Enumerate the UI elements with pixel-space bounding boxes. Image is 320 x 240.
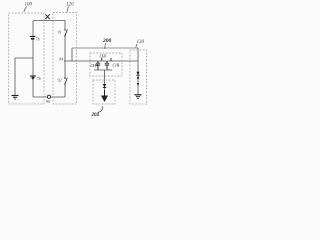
ground G1 [12,95,19,97]
dashed enclosure box 100 [9,13,45,104]
wire bottom horizontal [33,96,65,98]
svg-text:204: 204 [91,113,100,118]
wire ground branch horizontal [15,57,33,59]
break mark X on top wire [45,14,49,19]
wire exit from capacitor box [104,70,106,80]
battery B1 [30,35,36,37]
svg-text:94: 94 [59,57,63,62]
wire switch branch vertical upper [64,21,66,62]
dashed capacitor module box [90,53,122,76]
wire top rail to box 130 [72,47,138,49]
svg-text:7b: 7b [36,36,40,41]
leader for label 204 [98,106,103,113]
arrow mark on wire [137,83,139,86]
switch S1 [64,30,67,36]
wire riser to top rail [71,48,73,61]
svg-text:120: 120 [66,2,74,7]
wire top horizontal [33,20,65,22]
terminal node 96 [47,95,50,98]
zener diode D3 [136,72,139,75]
svg-text:92: 92 [58,78,62,83]
leader for label 120 [67,7,69,12]
arrow down in lower box [104,90,106,96]
tick marks on bus [102,58,111,61]
wire drop into box 130 [137,48,139,61]
wire ground branch vertical [14,58,16,95]
svg-text:91: 91 [58,30,62,35]
svg-text:100: 100 [25,2,33,7]
wire vertical in box 130 [137,61,139,95]
diode D1 on battery branch [30,75,36,77]
wire switch branch vertical lower [64,61,66,97]
svg-text:200: 200 [102,38,112,44]
switch S2 [64,78,67,84]
dashed enclosure box 130 [130,50,147,104]
svg-text:C1B: C1B [113,64,120,68]
capacitor C2 [105,61,109,70]
svg-text:130: 130 [137,40,145,45]
capacitor C1 [96,61,100,70]
leader for label 130 [136,44,137,48]
ground G2 [135,94,142,96]
wire lower rail in capacitor box [94,69,112,71]
dashed enclosure box 120 [53,13,77,105]
svg-text:CH1: CH1 [100,54,107,58]
wire battery branch vertical [32,21,34,98]
wire bus horizontal [64,60,138,62]
dashed lower module box [93,80,115,104]
diode D2 in lower box [104,80,106,90]
leader for label 100 [24,7,27,12]
svg-text:7b: 7b [37,76,41,81]
leader for label 200 [105,43,106,49]
